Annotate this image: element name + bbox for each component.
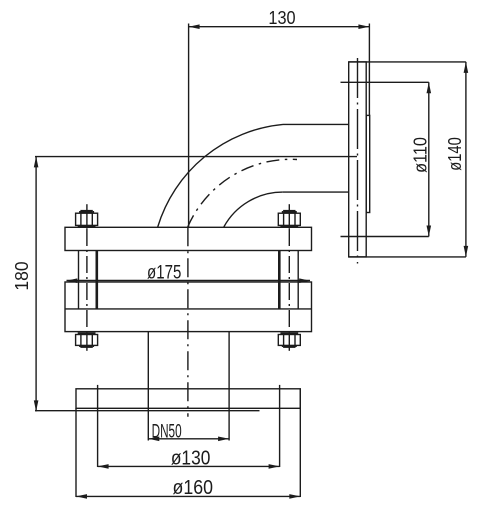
svg-text:180: 180 bbox=[11, 261, 32, 290]
left bolt centerline bbox=[86, 204, 88, 229]
dim o160 right extension bbox=[299, 389, 301, 497]
elbow outer arc bbox=[158, 124, 283, 227]
dim o175 left arrow bbox=[66, 278, 77, 283]
bolt nut bottom-left bbox=[76, 334, 98, 347]
dim o110 line bbox=[428, 82, 430, 236]
left bolt shaft edge bbox=[78, 251, 80, 309]
svg-text:ø140: ø140 bbox=[445, 137, 465, 171]
svg-text:ø160: ø160 bbox=[173, 477, 214, 499]
bolt nut bottom-right bbox=[278, 334, 300, 347]
horizontal pipe top wall bbox=[283, 123, 349, 125]
dim DN50 right arrow bbox=[218, 437, 229, 442]
dim o140 top extension bbox=[349, 61, 466, 63]
dim 130 right arrow bbox=[358, 24, 369, 29]
svg-text:ø130: ø130 bbox=[171, 447, 211, 469]
dim o175 line bbox=[67, 280, 311, 282]
bottom plate block bbox=[65, 282, 312, 332]
svg-text:ø175: ø175 bbox=[147, 262, 181, 283]
dim 130 right extension bbox=[368, 24, 370, 116]
right flange raised face bbox=[366, 115, 370, 212]
dim o110 top arrow bbox=[427, 82, 432, 93]
dim o140 top arrow bbox=[464, 62, 469, 73]
bolt nut top-left bbox=[76, 211, 98, 226]
dim o140 bottom arrow bbox=[464, 246, 469, 257]
right flange plate bbox=[349, 62, 367, 257]
dim o130 line bbox=[98, 465, 280, 467]
dim o110 bottom extension bbox=[341, 236, 429, 238]
vertical pipe centerline bbox=[187, 227, 189, 416]
elbow inner arc bbox=[224, 192, 283, 227]
bolt nut top-right bbox=[278, 211, 300, 226]
elbow center arc dashed bbox=[188, 159, 297, 227]
dim o160 right arrow bbox=[289, 494, 300, 499]
dim DN50 left arrow bbox=[148, 437, 159, 442]
right bolt shaft edge bbox=[297, 251, 299, 309]
vertical pipe right wall bbox=[228, 332, 230, 441]
dim o140 line bbox=[465, 62, 467, 257]
dim o160 line bbox=[76, 495, 300, 497]
dim o160 left extension bbox=[75, 408, 77, 497]
dim 130 line bbox=[189, 26, 370, 28]
svg-text:ø110: ø110 bbox=[410, 137, 430, 173]
dim o175 right arrow bbox=[299, 278, 310, 283]
bottom flange bbox=[76, 389, 300, 409]
dim o130 left extension bbox=[97, 385, 99, 467]
bottom plate inner split line bbox=[65, 308, 312, 310]
right glass edge thick bbox=[278, 251, 281, 309]
left glass edge thick bbox=[96, 251, 99, 309]
dim DN50 line bbox=[148, 438, 229, 440]
dim o140 bottom extension bbox=[349, 256, 466, 258]
dim 130 left arrow bbox=[189, 24, 200, 29]
dim 180 top arrow bbox=[34, 156, 39, 167]
dim 180 line bbox=[35, 156, 37, 411]
right bolt centerline bbox=[288, 204, 290, 229]
dim 180 bottom arrow bbox=[34, 400, 39, 411]
dim o130 right arrow bbox=[269, 464, 280, 469]
dim o160 left arrow bbox=[76, 494, 87, 499]
dim 130 left extension (pipe centerline vertical) bbox=[188, 24, 190, 228]
svg-text:130: 130 bbox=[268, 8, 295, 28]
horizontal pipe bottom wall bbox=[283, 191, 349, 193]
right flange centerline bbox=[357, 58, 359, 264]
dim 180 bottom extension bbox=[35, 410, 260, 412]
dim o110 top extension bbox=[341, 81, 429, 83]
dim o110 bottom arrow bbox=[427, 226, 432, 237]
horizontal pipe centerline bbox=[35, 156, 357, 158]
top plate bbox=[65, 227, 312, 250]
dim o130 left arrow bbox=[98, 464, 109, 469]
vertical pipe left wall bbox=[147, 332, 149, 441]
dim o130 right extension bbox=[279, 385, 281, 467]
svg-text:DN50: DN50 bbox=[152, 422, 182, 443]
